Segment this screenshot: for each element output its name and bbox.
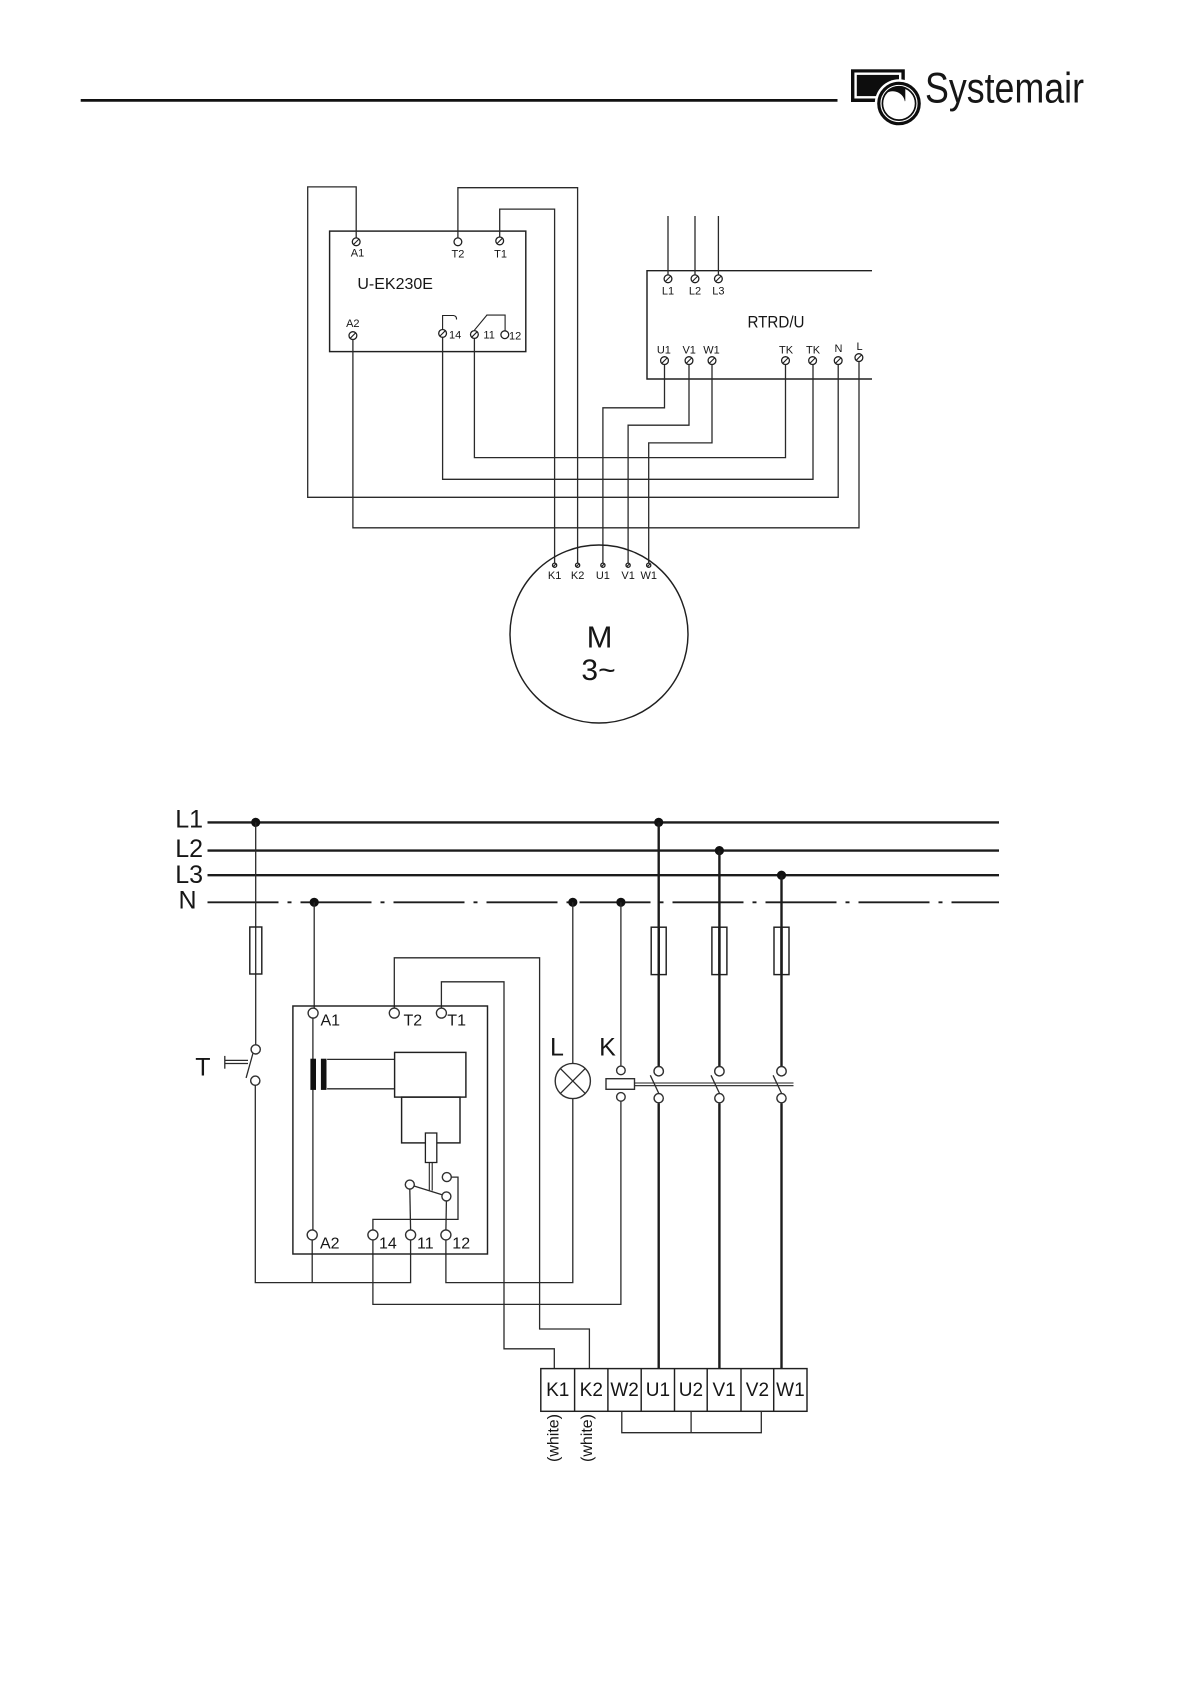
junction on L1 (contactor) xyxy=(654,818,663,827)
terminal N of RTRD/U xyxy=(834,357,842,365)
terminal T1 xyxy=(496,237,504,245)
wire NO to 14 xyxy=(373,1177,458,1230)
contactor K pole 2 contacts xyxy=(715,1067,724,1076)
svg-text:T: T xyxy=(195,1054,210,1082)
contactor K pole 1 contacts xyxy=(654,1067,663,1076)
relay transformer secondary bar xyxy=(321,1059,327,1090)
wire A2 to L xyxy=(353,340,859,528)
terminal 12 xyxy=(501,331,509,339)
motor terminal V1 xyxy=(626,563,630,567)
terminal T1 xyxy=(436,1008,446,1018)
contactor K pole 3 contacts xyxy=(777,1067,786,1076)
fuse F1 xyxy=(250,927,262,974)
contactor coil K lower terminal xyxy=(617,1093,626,1102)
relay plunger xyxy=(425,1133,436,1163)
wire N to lamp xyxy=(572,902,574,1063)
relay contact pivot (11) xyxy=(405,1180,414,1189)
svg-text:U1: U1 xyxy=(657,344,671,356)
svg-text:Systemair: Systemair xyxy=(925,66,1084,113)
stub L3 xyxy=(717,216,719,275)
svg-text:L: L xyxy=(550,1033,564,1061)
svg-text:14: 14 xyxy=(379,1236,397,1253)
lamp L body xyxy=(555,1063,590,1098)
wire T1 to K1 xyxy=(500,209,555,563)
svg-text:12: 12 xyxy=(509,330,521,342)
wire N to K coil xyxy=(620,902,622,1066)
relay contact inside U-EK230E xyxy=(443,316,457,330)
svg-text:RTRD/U: RTRD/U xyxy=(748,314,805,332)
terminal L of RTRD/U xyxy=(855,354,863,362)
svg-text:K2: K2 xyxy=(580,1380,603,1401)
svg-text:L2: L2 xyxy=(689,285,701,297)
svg-text:K2: K2 xyxy=(571,570,584,582)
terminal L3 of RTRD/U xyxy=(715,275,723,283)
svg-text:V2: V2 xyxy=(746,1380,769,1401)
wire V1 to motor V1 xyxy=(628,365,689,564)
contactor K pole 1 lever xyxy=(650,1075,659,1093)
svg-text:3~: 3~ xyxy=(581,654,615,687)
relay NC contact (12) xyxy=(442,1192,451,1201)
contactor K mechanical link xyxy=(635,1082,794,1084)
wire TK to 14 xyxy=(443,337,813,479)
junction on N (lamp branch) xyxy=(568,898,577,907)
terminal L2 of RTRD/U xyxy=(691,275,699,283)
svg-text:T1: T1 xyxy=(494,248,507,260)
junction on L1 (T branch) xyxy=(251,818,260,827)
bus N dash-dot xyxy=(208,901,1000,903)
junction on N (A1 branch) xyxy=(310,898,319,907)
svg-text:11: 11 xyxy=(417,1236,434,1253)
wire L2 phase to terminal V1 xyxy=(718,1103,720,1368)
T branch wire xyxy=(255,822,257,1044)
junction on L3 xyxy=(777,871,786,880)
relay armature lower block xyxy=(402,1097,460,1143)
svg-text:K: K xyxy=(599,1033,616,1061)
fuse F2 xyxy=(651,927,666,974)
pushbutton T actuator xyxy=(224,1056,226,1069)
svg-text:(white): (white) xyxy=(579,1414,596,1462)
stub L1 xyxy=(667,216,669,275)
wire L3 phase to terminal W1 xyxy=(780,1103,782,1368)
svg-text:(white): (white) xyxy=(546,1414,563,1462)
pushbutton T lever xyxy=(246,1054,253,1078)
wire T2 to K2 xyxy=(458,188,578,564)
relay box xyxy=(293,1006,488,1254)
svg-text:L3: L3 xyxy=(712,285,724,297)
Systemair logo mark xyxy=(851,69,923,127)
pushbutton T upper contact xyxy=(251,1045,260,1054)
transformer primary wire A1-A2 xyxy=(312,1018,314,1230)
contactor K pole 2 lever xyxy=(711,1075,720,1093)
wire L1 phase to terminal U1 xyxy=(658,1103,660,1368)
svg-text:M: M xyxy=(587,620,613,655)
contactor coil K body xyxy=(606,1079,635,1090)
contactor K pole 3 lever xyxy=(773,1075,782,1093)
wire T to 11 and A2 xyxy=(255,1085,410,1282)
motor terminal W1 xyxy=(647,563,651,567)
svg-text:T1: T1 xyxy=(447,1013,466,1030)
svg-text:W1: W1 xyxy=(640,570,657,582)
svg-text:A1: A1 xyxy=(351,248,364,260)
svg-text:T2: T2 xyxy=(404,1013,423,1030)
terminal U1 of RTRD/U xyxy=(661,357,669,365)
terminal W1 of RTRD/U xyxy=(708,357,716,365)
svg-text:K1: K1 xyxy=(548,570,561,582)
svg-text:L1: L1 xyxy=(175,806,203,834)
header rule xyxy=(81,99,838,102)
svg-text:V1: V1 xyxy=(621,570,634,582)
relay contact lever xyxy=(414,1186,442,1195)
lamp L cross xyxy=(560,1069,585,1094)
svg-text:U1: U1 xyxy=(596,570,610,582)
svg-text:U-EK230E: U-EK230E xyxy=(357,276,433,293)
wire N to A1 xyxy=(313,902,315,1008)
relay transformer primary bar xyxy=(310,1059,316,1090)
terminal TK2 of RTRD/U xyxy=(809,357,817,365)
bus L1 xyxy=(208,821,1000,823)
svg-text:L1: L1 xyxy=(662,285,674,297)
terminal 14 xyxy=(368,1230,378,1240)
svg-text:TK: TK xyxy=(806,344,821,356)
wire TK to 11 xyxy=(474,339,785,458)
terminal block dividers xyxy=(574,1369,576,1412)
svg-text:U1: U1 xyxy=(646,1380,670,1401)
wire 14 to K coil xyxy=(373,1101,621,1304)
svg-text:W1: W1 xyxy=(776,1380,805,1401)
svg-text:12: 12 xyxy=(452,1236,470,1253)
terminal A1 xyxy=(352,238,360,246)
wire W1 to motor W1 xyxy=(649,365,712,564)
svg-text:W1: W1 xyxy=(703,344,720,356)
svg-text:L3: L3 xyxy=(175,861,203,889)
fuse F3 xyxy=(712,927,727,974)
relay coil body lines xyxy=(327,1058,395,1060)
fuse F4 xyxy=(774,927,789,974)
contactor coil K upper terminal xyxy=(617,1066,626,1075)
terminal A2 xyxy=(307,1230,317,1240)
wire T1 to K1 terminal xyxy=(441,982,554,1369)
terminal 11 xyxy=(471,331,479,339)
svg-text:N: N xyxy=(178,886,196,914)
terminal A1 xyxy=(308,1008,318,1018)
wire 12 to lamp xyxy=(446,1099,573,1283)
U-EK230E box xyxy=(330,231,526,352)
terminal L1 of RTRD/U xyxy=(664,275,672,283)
svg-text:N: N xyxy=(835,343,843,355)
wire A1 to N xyxy=(308,187,839,497)
relay NO contact (14) xyxy=(442,1173,451,1182)
svg-text:14: 14 xyxy=(449,329,461,341)
phase L3 drop xyxy=(780,875,782,1066)
svg-text:11: 11 xyxy=(483,329,494,341)
svg-text:L2: L2 xyxy=(175,835,203,863)
wire T2 to K2 terminal xyxy=(394,958,589,1369)
RTRD/U box (open right) xyxy=(647,271,872,379)
motor terminal K2 xyxy=(576,563,580,567)
svg-text:A2: A2 xyxy=(346,318,359,330)
motor terminal block outline xyxy=(541,1369,807,1412)
pushbutton T lower contact xyxy=(251,1076,260,1085)
wire A2 down xyxy=(311,1240,313,1283)
relay armature block xyxy=(395,1052,466,1097)
svg-text:T2: T2 xyxy=(451,248,464,260)
terminal T2 xyxy=(389,1008,399,1018)
terminal A2 xyxy=(349,332,357,340)
phase L1 drop xyxy=(658,822,660,1066)
motor terminal K1 xyxy=(553,563,557,567)
terminal 14 xyxy=(439,330,447,338)
terminal T2 xyxy=(454,238,462,246)
svg-text:V1: V1 xyxy=(682,344,695,356)
svg-text:U2: U2 xyxy=(679,1380,703,1401)
relay actuator rod xyxy=(428,1163,430,1191)
svg-text:W2: W2 xyxy=(610,1380,639,1401)
svg-text:A1: A1 xyxy=(321,1013,341,1030)
terminal V1 of RTRD/U xyxy=(685,357,693,365)
junction on L2 xyxy=(715,846,724,855)
bus L3 xyxy=(208,874,1000,876)
svg-text:V1: V1 xyxy=(712,1380,735,1401)
bus L2 xyxy=(208,849,1000,851)
terminal 12 xyxy=(441,1230,451,1240)
phase L2 drop xyxy=(718,851,720,1067)
wire U1 to motor U1 xyxy=(603,365,665,564)
star-point link W2-U2-V2 xyxy=(622,1411,762,1432)
junction on N (K coil branch) xyxy=(616,898,625,907)
svg-text:K1: K1 xyxy=(546,1380,569,1401)
wire pivot to 11 xyxy=(409,1189,412,1230)
stub L2 xyxy=(694,216,696,275)
svg-text:TK: TK xyxy=(779,344,794,356)
terminal 11 xyxy=(406,1230,416,1240)
motor terminal U1 xyxy=(601,563,605,567)
terminal TK1 of RTRD/U xyxy=(782,357,790,365)
wire NC to 12 xyxy=(445,1201,448,1230)
svg-text:L: L xyxy=(856,341,862,353)
motor M 3~ xyxy=(510,545,688,723)
svg-text:A2: A2 xyxy=(320,1236,340,1253)
